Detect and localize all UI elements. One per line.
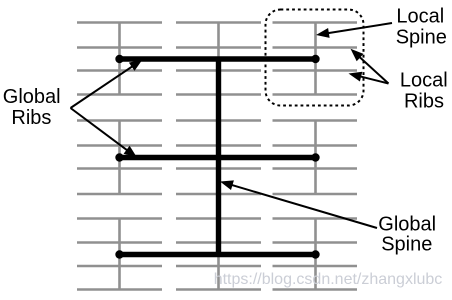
- svg-text:Local: Local: [400, 70, 448, 92]
- svg-text:Ribs: Ribs: [404, 91, 444, 113]
- svg-text:Global: Global: [3, 86, 61, 108]
- svg-text:https://blog.csdn.net/zhangxlu: https://blog.csdn.net/zhangxlubc: [214, 271, 443, 288]
- svg-text:Spine: Spine: [381, 233, 432, 255]
- svg-text:Local: Local: [396, 6, 444, 28]
- svg-text:Global: Global: [378, 213, 436, 235]
- svg-text:Spine: Spine: [396, 27, 447, 49]
- svg-text:Ribs: Ribs: [11, 107, 51, 129]
